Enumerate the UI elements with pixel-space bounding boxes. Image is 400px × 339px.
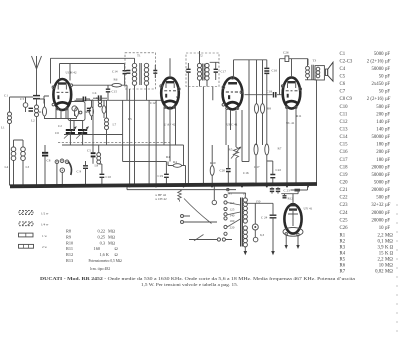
legend resistor 1/2w [19, 211, 49, 216]
svg-text:L1: L1 [1, 126, 5, 130]
svg-text:MΩ: MΩ [385, 269, 393, 274]
svg-text:pF: pF [385, 52, 390, 57]
svg-text:C6: C6 [340, 82, 346, 87]
svg-text:pF: pF [385, 226, 390, 231]
IF transformer T1 shield [125, 53, 156, 89]
wire [183, 145, 185, 166]
svg-text:pF: pF [385, 90, 390, 95]
svg-text:R2: R2 [340, 239, 346, 244]
capacitor C22 [267, 161, 282, 186]
wire [50, 58, 52, 83]
svg-text:MΩ: MΩ [108, 240, 115, 245]
capacitor T1 right [153, 65, 157, 78]
resistor R2b [75, 107, 79, 118]
resistor R6 [112, 78, 127, 101]
svg-text:1/2 w: 1/2 w [41, 211, 49, 215]
svg-text:C15: C15 [112, 90, 118, 94]
svg-text:R7: R7 [278, 147, 282, 151]
svg-text:200: 200 [376, 150, 384, 155]
svg-text:R8: R8 [267, 107, 271, 111]
svg-text:R10: R10 [210, 161, 216, 165]
svg-text:C15: C15 [340, 143, 349, 148]
svg-text:500: 500 [376, 196, 384, 201]
svg-text:C 23: C 23 [284, 189, 291, 193]
tube V5 UY41 [283, 203, 303, 236]
svg-text:220: 220 [230, 226, 235, 230]
voltage selector contacts [224, 194, 235, 235]
svg-text:C18: C18 [340, 165, 349, 170]
capacitor C4b [29, 108, 34, 111]
inductor L4 [5, 140, 16, 186]
svg-text:R11: R11 [66, 246, 73, 251]
wire [123, 161, 167, 163]
svg-text:R1: R1 [39, 110, 43, 114]
capacitor C23 electrolytic b [276, 187, 290, 193]
svg-text:3,9: 3,9 [378, 245, 385, 250]
svg-text:R5: R5 [229, 148, 233, 152]
tube V2 UAF42 [160, 76, 180, 108]
variable capacitor C6b [76, 121, 89, 146]
wire antenna lead [36, 69, 38, 95]
lamp 2 [253, 233, 264, 242]
svg-text:245: 245 [227, 192, 232, 196]
capacitor C5 [87, 100, 96, 161]
capacitor C9 [77, 161, 89, 186]
svg-text:C22: C22 [340, 196, 349, 201]
svg-text:C 9: C 9 [77, 170, 82, 174]
svg-text:C4: C4 [340, 67, 346, 72]
capacitor C4 [93, 91, 108, 101]
wire pin rail [37, 98, 45, 100]
wire grid line V4 top [280, 59, 309, 95]
svg-text:C17: C17 [340, 158, 349, 163]
heater wire + arrow [244, 247, 248, 255]
svg-text:R10: R10 [66, 240, 73, 245]
svg-text:MΩ: MΩ [108, 234, 115, 239]
svg-text:20000: 20000 [372, 165, 385, 170]
svg-text:pF: pF [385, 165, 390, 170]
svg-text:Ω: Ω [115, 246, 118, 251]
capacitor C1 [4, 94, 40, 99]
wire right edge down [316, 80, 318, 184]
svg-text:160: 160 [94, 246, 100, 251]
T1 core [140, 63, 142, 85]
capacitor C7 [76, 97, 94, 103]
svg-text:5000: 5000 [374, 52, 384, 57]
potentiometer R13 [229, 111, 242, 186]
svg-text:K Ω: K Ω [385, 245, 394, 250]
antenna [32, 56, 42, 69]
inductor L1 [1, 112, 12, 130]
svg-text:pF: pF [385, 135, 390, 140]
band switch [55, 159, 71, 186]
svg-text:R12: R12 [66, 252, 73, 257]
svg-text:MΩ: MΩ [385, 239, 393, 244]
svg-text:5000: 5000 [374, 180, 384, 185]
inductor L2 antenna coil [35, 105, 39, 117]
svg-text:C24: C24 [340, 211, 349, 216]
capacitor T1 left [126, 71, 130, 74]
wire [36, 117, 38, 186]
svg-text:C 24: C 24 [261, 216, 268, 220]
svg-text:R7: R7 [340, 269, 346, 274]
wire T4 HT [245, 202, 247, 204]
svg-text:500: 500 [376, 105, 384, 110]
capacitor C8 [42, 145, 51, 186]
tube V4 UL41 [281, 76, 301, 108]
svg-text:150: 150 [256, 200, 261, 204]
svg-text:UY 41: UY 41 [304, 207, 313, 211]
svg-text:C14: C14 [340, 135, 349, 140]
svg-text:R12: R12 [288, 197, 294, 201]
wire B+ top rail [51, 58, 135, 63]
output transformer T3 [306, 59, 325, 81]
wire [281, 191, 298, 194]
wire V1 grid side [44, 96, 49, 104]
svg-text:50000: 50000 [372, 173, 385, 178]
svg-text:10: 10 [379, 263, 384, 268]
svg-text:R3: R3 [176, 95, 180, 99]
wire T1 secondary down [146, 85, 148, 100]
legend resistor 1w [19, 233, 48, 238]
svg-text:pF: pF [385, 128, 390, 133]
svg-text:pF: pF [385, 82, 390, 87]
tube V1 UCH42 [52, 79, 72, 110]
svg-text:pF: pF [385, 120, 390, 125]
svg-text:R13: R13 [66, 258, 73, 263]
inductor T2 secondary [205, 63, 209, 80]
wire plate V3 line [234, 60, 267, 78]
svg-text:R8: R8 [66, 229, 71, 234]
svg-text:C26: C26 [283, 51, 289, 55]
svg-text:C22: C22 [276, 168, 282, 172]
legend resistor 1/4w [19, 222, 49, 227]
wire plate [69, 64, 71, 81]
mechanical link dash-dot [58, 141, 170, 143]
wire [148, 100, 150, 185]
svg-text:C16: C16 [340, 150, 349, 155]
svg-text:R3: R3 [340, 245, 346, 250]
wire [248, 60, 250, 162]
svg-text:C5: C5 [340, 75, 346, 80]
wire AVC line [75, 99, 162, 101]
svg-text:0,82: 0,82 [375, 269, 384, 274]
inductor T1 secondary [144, 63, 148, 85]
svg-text:C20: C20 [220, 169, 226, 173]
wire speaker/T3 [305, 59, 317, 80]
heater pin arrow 2 [296, 233, 299, 249]
svg-text:20000: 20000 [372, 211, 385, 216]
svg-text:C13: C13 [340, 128, 349, 133]
capacitor T2 left [186, 63, 190, 80]
svg-text:pF: pF [385, 75, 390, 80]
svg-text:R6: R6 [340, 263, 346, 268]
wire T4 top to bus [228, 193, 245, 198]
svg-text:C21: C21 [340, 188, 349, 193]
svg-text:32+32: 32+32 [371, 203, 384, 208]
svg-text:50000: 50000 [372, 67, 385, 72]
capacitor C16 [264, 60, 277, 144]
resistor R11 [295, 189, 301, 192]
svg-text:C4: C4 [93, 91, 97, 95]
svg-text:2,2: 2,2 [378, 233, 385, 238]
wire [291, 187, 308, 191]
wire V4 pins down [287, 108, 296, 186]
capacitor C5b [87, 108, 91, 110]
bus junction dots [22, 186, 309, 188]
heater pin arrows [285, 233, 288, 249]
svg-text:140: 140 [376, 128, 384, 133]
wire [59, 64, 61, 80]
wire [73, 121, 75, 131]
wire V1 pins down [56, 108, 66, 119]
svg-text:L5: L5 [128, 117, 132, 121]
svg-text:C10: C10 [340, 105, 349, 110]
svg-text:C8: C8 [47, 159, 51, 163]
svg-text:15: 15 [379, 251, 384, 256]
fuse lamp [212, 187, 216, 205]
wire [36, 99, 38, 105]
svg-text:C3: C3 [20, 97, 24, 101]
svg-text:C19: C19 [158, 174, 164, 178]
inductor L3 [14, 140, 30, 186]
heater dropper zigzag [178, 190, 182, 202]
inductor T2 primary [197, 63, 201, 80]
svg-text:pF: pF [385, 196, 390, 201]
capacitor C24 [261, 203, 276, 251]
wire to rectifier [292, 194, 294, 204]
svg-text:C18: C18 [267, 90, 273, 94]
svg-text:pF: pF [385, 218, 390, 223]
svg-text:180: 180 [376, 143, 384, 148]
wire plate V4 [291, 59, 293, 77]
oscillator padder box [68, 102, 85, 121]
svg-text:MΩ: MΩ [385, 233, 393, 238]
inductor T1 primary [132, 63, 136, 85]
svg-text:MΩ: MΩ [385, 263, 393, 268]
svg-text:20000: 20000 [372, 218, 385, 223]
svg-text:C23: C23 [340, 203, 349, 208]
resistor R3b [102, 100, 106, 118]
wire [155, 100, 157, 185]
svg-text:C14: C14 [112, 70, 118, 74]
svg-text:C19: C19 [340, 173, 349, 178]
wire heater line [127, 187, 236, 190]
svg-text:pF: pF [385, 67, 390, 72]
svg-text:pF: pF [385, 180, 390, 185]
svg-text:C11: C11 [340, 112, 348, 117]
svg-text:2,2: 2,2 [378, 257, 385, 262]
svg-text:pF: pF [385, 143, 390, 148]
resistor R10 [261, 60, 272, 145]
svg-text:R11: R11 [296, 114, 302, 118]
resistor R7 [265, 144, 282, 186]
svg-text:MΩ: MΩ [108, 229, 115, 234]
coupling wire V3-V4 [245, 94, 282, 96]
svg-text:C5: C5 [96, 96, 100, 100]
svg-text:T1: T1 [137, 54, 141, 58]
svg-text:R4: R4 [166, 155, 170, 159]
svg-text:C25: C25 [340, 218, 349, 223]
svg-text:UCH 42: UCH 42 [66, 71, 77, 75]
svg-text:µF: µF [385, 59, 391, 64]
svg-text:L4: L4 [5, 165, 9, 169]
tube V3 UBC41 [222, 76, 243, 109]
svg-text:R5: R5 [340, 257, 346, 262]
wire [72, 84, 112, 86]
svg-text:C5: C5 [87, 149, 91, 153]
svg-text:pF: pF [385, 211, 390, 216]
capacitor C25 [283, 194, 294, 201]
svg-text:µF: µF [385, 97, 391, 102]
capacitor C17 [214, 62, 227, 80]
wire V3 pins [203, 87, 242, 186]
pilot lamp [252, 203, 258, 237]
capacitor C15 [106, 85, 118, 100]
svg-text:2 w: 2 w [42, 245, 47, 249]
svg-text:R6: R6 [114, 78, 118, 82]
capacitor C20 [220, 145, 231, 186]
svg-text:10: 10 [379, 226, 384, 231]
wire HT 150 line [248, 200, 274, 204]
svg-text:50000: 50000 [372, 135, 385, 140]
svg-text:R4: R4 [340, 251, 346, 256]
wire ground side [10, 97, 34, 186]
speaker [326, 62, 334, 81]
mains terminals [181, 215, 218, 224]
svg-text:Ω: Ω [115, 252, 118, 257]
svg-text:R1: R1 [340, 233, 346, 238]
svg-text:T3: T3 [313, 59, 317, 63]
svg-text:C2: C2 [58, 124, 62, 128]
svg-text:2x450: 2x450 [372, 82, 385, 87]
svg-text:L8: L8 [95, 164, 99, 168]
resistor R2 [86, 100, 94, 120]
wire V2 pins [164, 106, 176, 162]
chassis bus bar [10, 184, 317, 186]
svg-text:T4: T4 [243, 192, 247, 196]
wire [129, 89, 131, 186]
svg-text:pF: pF [385, 158, 390, 163]
wire T2 down [188, 80, 212, 186]
svg-text:C2-C3: C2-C3 [340, 59, 353, 64]
svg-text:1/4 w: 1/4 w [41, 223, 49, 227]
selector tap wires [227, 203, 240, 228]
inductor L5 [98, 100, 101, 107]
capacitor C23 electrolytic a [270, 187, 274, 193]
svg-text:L7: L7 [113, 123, 117, 127]
wire plate V2 [169, 58, 171, 77]
resistor R5 [254, 144, 258, 186]
legend resistor 2w [19, 244, 48, 249]
resistor R9 [255, 60, 259, 145]
svg-text:L2: L2 [31, 119, 35, 123]
svg-text:1 w: 1 w [42, 234, 47, 238]
svg-text:C12: C12 [150, 101, 156, 105]
svg-text:C16: C16 [243, 171, 249, 175]
capacitor C14 [112, 64, 127, 85]
svg-text:C20: C20 [340, 180, 349, 185]
IF transformer T2 shield [186, 53, 219, 87]
svg-text:C12: C12 [340, 120, 349, 125]
power transformer T4 [241, 198, 248, 247]
wire T1 primary down [134, 85, 136, 185]
capacitor C19 [158, 162, 169, 186]
svg-text:140: 140 [376, 120, 384, 125]
heater line contacts [227, 188, 229, 190]
svg-text:0,1: 0,1 [378, 239, 385, 244]
wire C6 bottom rail [64, 134, 123, 136]
svg-text:pF: pF [385, 173, 390, 178]
mains lead curve [184, 199, 212, 224]
wire long horizontal [62, 144, 184, 146]
svg-text:C6: C6 [55, 131, 59, 135]
resistor R3 [210, 145, 214, 186]
wire verticals center [122, 100, 124, 161]
svg-text:pF: pF [385, 105, 390, 110]
svg-text:pF: pF [385, 188, 390, 193]
ground arrow [271, 251, 275, 255]
inductor L6 [93, 145, 101, 168]
svg-text:K Ω: K Ω [385, 251, 394, 256]
svg-text:lcm. tipo 482: lcm. tipo 482 [90, 267, 110, 271]
svg-text:C16: C16 [272, 69, 278, 73]
svg-text:C1: C1 [340, 52, 346, 57]
wire screen rail [60, 63, 125, 65]
svg-text:C17: C17 [254, 165, 260, 169]
capacitor C10 [99, 164, 112, 186]
svg-text:R9: R9 [66, 234, 71, 239]
svg-text:C26: C26 [340, 226, 349, 231]
wire T2 top link [200, 51, 220, 63]
svg-text:C8 C9: C8 C9 [340, 97, 353, 102]
capacitor C18 [267, 90, 276, 98]
svg-text:50: 50 [379, 90, 384, 95]
svg-text:C17: C17 [221, 70, 227, 74]
on/off switch [189, 235, 232, 242]
svg-text:pF: pF [385, 112, 390, 117]
svg-text:200: 200 [376, 112, 384, 117]
inductor L7 [105, 100, 117, 145]
svg-text:20000: 20000 [372, 188, 385, 193]
svg-text:2 (2+16): 2 (2+16) [367, 97, 384, 102]
variable capacitor C6a [55, 119, 77, 146]
svg-text:2 (2+16): 2 (2+16) [367, 59, 384, 64]
scan artifact dots [396, 204, 397, 331]
svg-text:R4: R4 [173, 160, 177, 164]
svg-text:u CH 42: u CH 42 [156, 197, 168, 201]
resistor R1 [39, 99, 47, 119]
svg-text:180: 180 [376, 158, 384, 163]
misc tiny labels [58, 95, 302, 175]
svg-text:C7: C7 [340, 90, 346, 95]
svg-text:pF: pF [385, 150, 390, 155]
svg-text:50: 50 [379, 75, 384, 80]
trimmer C3 [20, 97, 28, 112]
svg-text:C1: C1 [4, 94, 8, 98]
wire [242, 161, 249, 163]
svg-text:µF: µF [385, 203, 391, 208]
capacitor C26 [283, 51, 289, 62]
T2 core [203, 64, 205, 81]
parts list text [340, 52, 394, 274]
svg-text:MΩ: MΩ [385, 257, 393, 262]
svg-text:125: 125 [230, 208, 235, 212]
svg-text:L3: L3 [26, 165, 30, 169]
svg-text:C10: C10 [106, 175, 112, 179]
resistor R4 [168, 160, 186, 186]
